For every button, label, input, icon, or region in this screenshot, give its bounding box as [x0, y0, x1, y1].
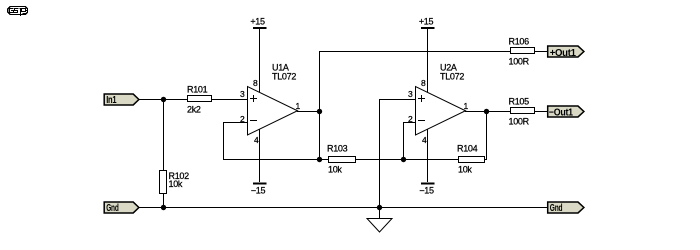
svg-text:3: 3 [408, 89, 413, 99]
wire top row to R106 [319, 51, 511, 52]
wire R103 to R104 [355, 159, 459, 160]
svg-text:+Out1: +Out1 [550, 48, 577, 59]
svg-text:4: 4 [422, 135, 427, 145]
svg-text:R101: R101 [187, 85, 208, 95]
resistor R105 [509, 97, 535, 127]
node In1/R102 [161, 97, 166, 102]
wire U2A pin2 vertical [403, 122, 404, 160]
svg-text:+15: +15 [250, 17, 265, 27]
wire feedback row to R103 [223, 159, 329, 160]
port Gnd left [104, 202, 139, 214]
svg-text:TL072: TL072 [272, 72, 296, 82]
node feedback/R103 [317, 157, 322, 162]
port -Out1 [548, 106, 584, 118]
resistor R103 [327, 144, 356, 175]
wire U2A pin 4 to -15 [427, 129, 428, 182]
svg-text:R103: R103 [327, 144, 348, 154]
wire In1 junction to R102 [163, 100, 164, 171]
resistor R106 [509, 37, 535, 67]
wire U1A pin 4 to -15 [259, 129, 260, 182]
port Gnd right [548, 202, 584, 214]
wire R101 to U1A pin3 [211, 99, 248, 100]
svg-text:2k2: 2k2 [187, 105, 201, 115]
+15 bar [421, 27, 435, 29]
wire +15 to U2A pin 8 [427, 29, 428, 92]
svg-text:8: 8 [253, 78, 258, 88]
wire U1A feedback vertical [223, 122, 224, 160]
svg-text:R106: R106 [509, 37, 530, 47]
node U2A out/R104 [484, 109, 489, 114]
svg-text:−Out1: −Out1 [549, 107, 574, 118]
wire U2A output [465, 111, 511, 112]
svg-text:In1: In1 [106, 95, 117, 106]
-15 bar [421, 183, 435, 185]
svg-text:−15: −15 [251, 186, 266, 196]
power +15 U2A [419, 17, 434, 93]
svg-text:10k: 10k [328, 165, 342, 175]
+15 bar [253, 27, 267, 29]
wire U1A pin2 [223, 122, 248, 123]
wire In1 to R101 [139, 99, 188, 100]
node R102/Gnd [161, 205, 166, 210]
wire R106 to +Out1 [534, 51, 547, 52]
svg-text:10k: 10k [458, 165, 472, 175]
esp logo [8, 7, 28, 17]
svg-text:+15: +15 [419, 17, 434, 27]
-15 bar [253, 183, 267, 185]
svg-text:2: 2 [408, 114, 413, 124]
wire R105 to -Out1 [534, 111, 547, 112]
svg-text:8: 8 [421, 78, 426, 88]
op-amp U1A [240, 63, 301, 146]
power -15 U1A [251, 129, 266, 196]
wire U2A pin3 vertical to ground [379, 99, 380, 219]
wire +15 to U1A pin 8 [259, 29, 260, 92]
U1A minus mark [250, 120, 257, 121]
svg-text:1: 1 [296, 101, 301, 111]
resistor R104 [457, 144, 485, 175]
svg-text:−15: −15 [419, 186, 434, 196]
resistor R101 [187, 85, 212, 115]
wire U2A feedback vertical [486, 111, 487, 160]
wire U2A pin3 horizontal [379, 99, 416, 100]
op-amp U2A [408, 63, 469, 146]
svg-text:Gnd: Gnd [550, 203, 563, 214]
svg-text:R104: R104 [457, 144, 478, 154]
svg-text:TL072: TL072 [440, 72, 464, 82]
svg-text:R105: R105 [509, 97, 530, 107]
power -15 U2A [419, 129, 434, 196]
svg-text:1: 1 [464, 101, 469, 111]
wire R104 to fb corner [484, 159, 487, 160]
U2A plus mark [418, 98, 425, 99]
svg-text:4: 4 [254, 135, 259, 145]
svg-text:100R: 100R [509, 57, 530, 67]
svg-text:3: 3 [240, 89, 245, 99]
svg-text:2: 2 [240, 114, 245, 124]
resistor R102 [160, 171, 190, 194]
node R103/R104/pin2 [401, 157, 406, 162]
node U1A out [317, 109, 322, 114]
wire U2A pin2 [403, 122, 416, 123]
power +15 U1A [250, 17, 266, 93]
svg-text:100R: 100R [509, 117, 530, 127]
wire node A vertical [319, 51, 320, 160]
svg-text:10k: 10k [169, 179, 183, 189]
node gnd rail [377, 205, 382, 210]
U2A minus mark [418, 120, 425, 121]
svg-text:Gnd: Gnd [106, 203, 119, 214]
port In1 [104, 94, 139, 106]
wire Gnd rail [139, 207, 547, 208]
U1A plus mark [250, 98, 257, 99]
ground [367, 219, 392, 233]
wire R102 to Gnd rail [163, 193, 164, 208]
wire U1A output [297, 111, 320, 112]
port +Out1 [548, 46, 584, 59]
